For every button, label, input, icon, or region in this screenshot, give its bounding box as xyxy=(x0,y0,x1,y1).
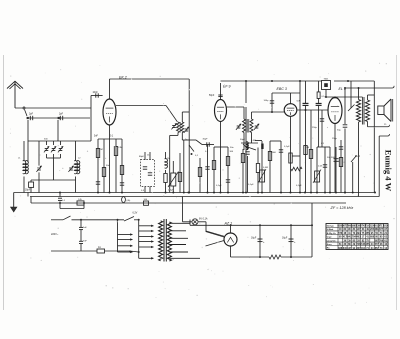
svg-text:1M: 1M xyxy=(306,147,309,149)
svg-text:500: 500 xyxy=(44,139,48,141)
svg-text:2pF: 2pF xyxy=(59,113,64,116)
svg-text:+: + xyxy=(294,241,296,244)
svg-text:0,1: 0,1 xyxy=(195,155,199,157)
svg-text:0,25: 0,25 xyxy=(318,166,323,168)
svg-text:2M: 2M xyxy=(100,149,103,151)
svg-text:EBC 3: EBC 3 xyxy=(277,87,287,91)
svg-text:0,1µF: 0,1µF xyxy=(284,146,290,148)
svg-text:5000: 5000 xyxy=(271,152,277,154)
svg-text:5nF: 5nF xyxy=(297,101,301,103)
svg-text:16µF: 16µF xyxy=(251,238,257,240)
svg-text:100p: 100p xyxy=(264,100,270,102)
svg-text:300: 300 xyxy=(230,151,234,153)
svg-text:50µ: 50µ xyxy=(337,130,341,132)
svg-text:6,3V: 6,3V xyxy=(133,213,138,215)
svg-text:Eumig 4 W: Eumig 4 W xyxy=(384,150,394,192)
svg-text:1814: 1814 xyxy=(383,225,389,228)
svg-text:796: 796 xyxy=(379,240,384,242)
svg-text:250p: 250p xyxy=(312,127,318,129)
svg-text:25: 25 xyxy=(384,124,387,126)
svg-text:U-Batt: U-Batt xyxy=(327,228,334,231)
svg-text:50pF: 50pF xyxy=(209,95,215,97)
svg-text:Gertyp: Gertyp xyxy=(327,224,335,227)
svg-text:0.1: 0.1 xyxy=(110,136,114,138)
svg-text:30pF: 30pF xyxy=(203,139,209,141)
svg-text:50n: 50n xyxy=(230,147,234,149)
svg-text:6V 0,1A: 6V 0,1A xyxy=(199,217,208,220)
svg-text:677: 677 xyxy=(379,229,384,231)
svg-text:0.1: 0.1 xyxy=(62,200,66,202)
svg-text:+: + xyxy=(263,241,265,244)
svg-text:5nF: 5nF xyxy=(83,227,87,229)
svg-text:10nF: 10nF xyxy=(93,92,99,94)
svg-text:608: 608 xyxy=(370,237,375,239)
svg-text:30pF: 30pF xyxy=(25,190,31,192)
svg-text:0.3M: 0.3M xyxy=(118,147,123,149)
svg-text:U-ge: U-ge xyxy=(327,237,333,239)
svg-text:0,1µF: 0,1µF xyxy=(296,185,302,187)
svg-text:ZF = 128 kHz: ZF = 128 kHz xyxy=(330,206,354,210)
svg-text:5nF: 5nF xyxy=(83,241,87,243)
svg-text:577: 577 xyxy=(375,244,380,246)
svg-text:B-Wg Lb: B-Wg Lb xyxy=(327,233,337,235)
svg-text:Lang Ub: Lang Ub xyxy=(327,240,336,242)
svg-text:220V~: 220V~ xyxy=(51,233,59,236)
svg-text:0,5: 0,5 xyxy=(321,143,325,145)
svg-text:16µF: 16µF xyxy=(282,238,288,240)
svg-text:857: 857 xyxy=(375,248,380,250)
svg-text:(4k): (4k) xyxy=(127,200,131,202)
svg-text:0,1µF: 0,1µF xyxy=(248,184,254,186)
svg-text:250p: 250p xyxy=(332,138,338,140)
svg-text:L1: L1 xyxy=(18,158,21,160)
svg-text:88pF: 88pF xyxy=(139,156,145,158)
svg-text:50pF: 50pF xyxy=(240,139,246,141)
svg-text:2pF: 2pF xyxy=(29,113,34,116)
svg-text:0.1: 0.1 xyxy=(205,151,209,153)
svg-text:0,1µF: 0,1µF xyxy=(216,185,222,187)
svg-text:5nF: 5nF xyxy=(94,136,99,138)
svg-text:L2: L2 xyxy=(78,158,81,160)
svg-text:1A: 1A xyxy=(98,246,101,249)
svg-text:0,5M: 0,5M xyxy=(263,167,268,169)
svg-text:0.5: 0.5 xyxy=(141,190,145,192)
